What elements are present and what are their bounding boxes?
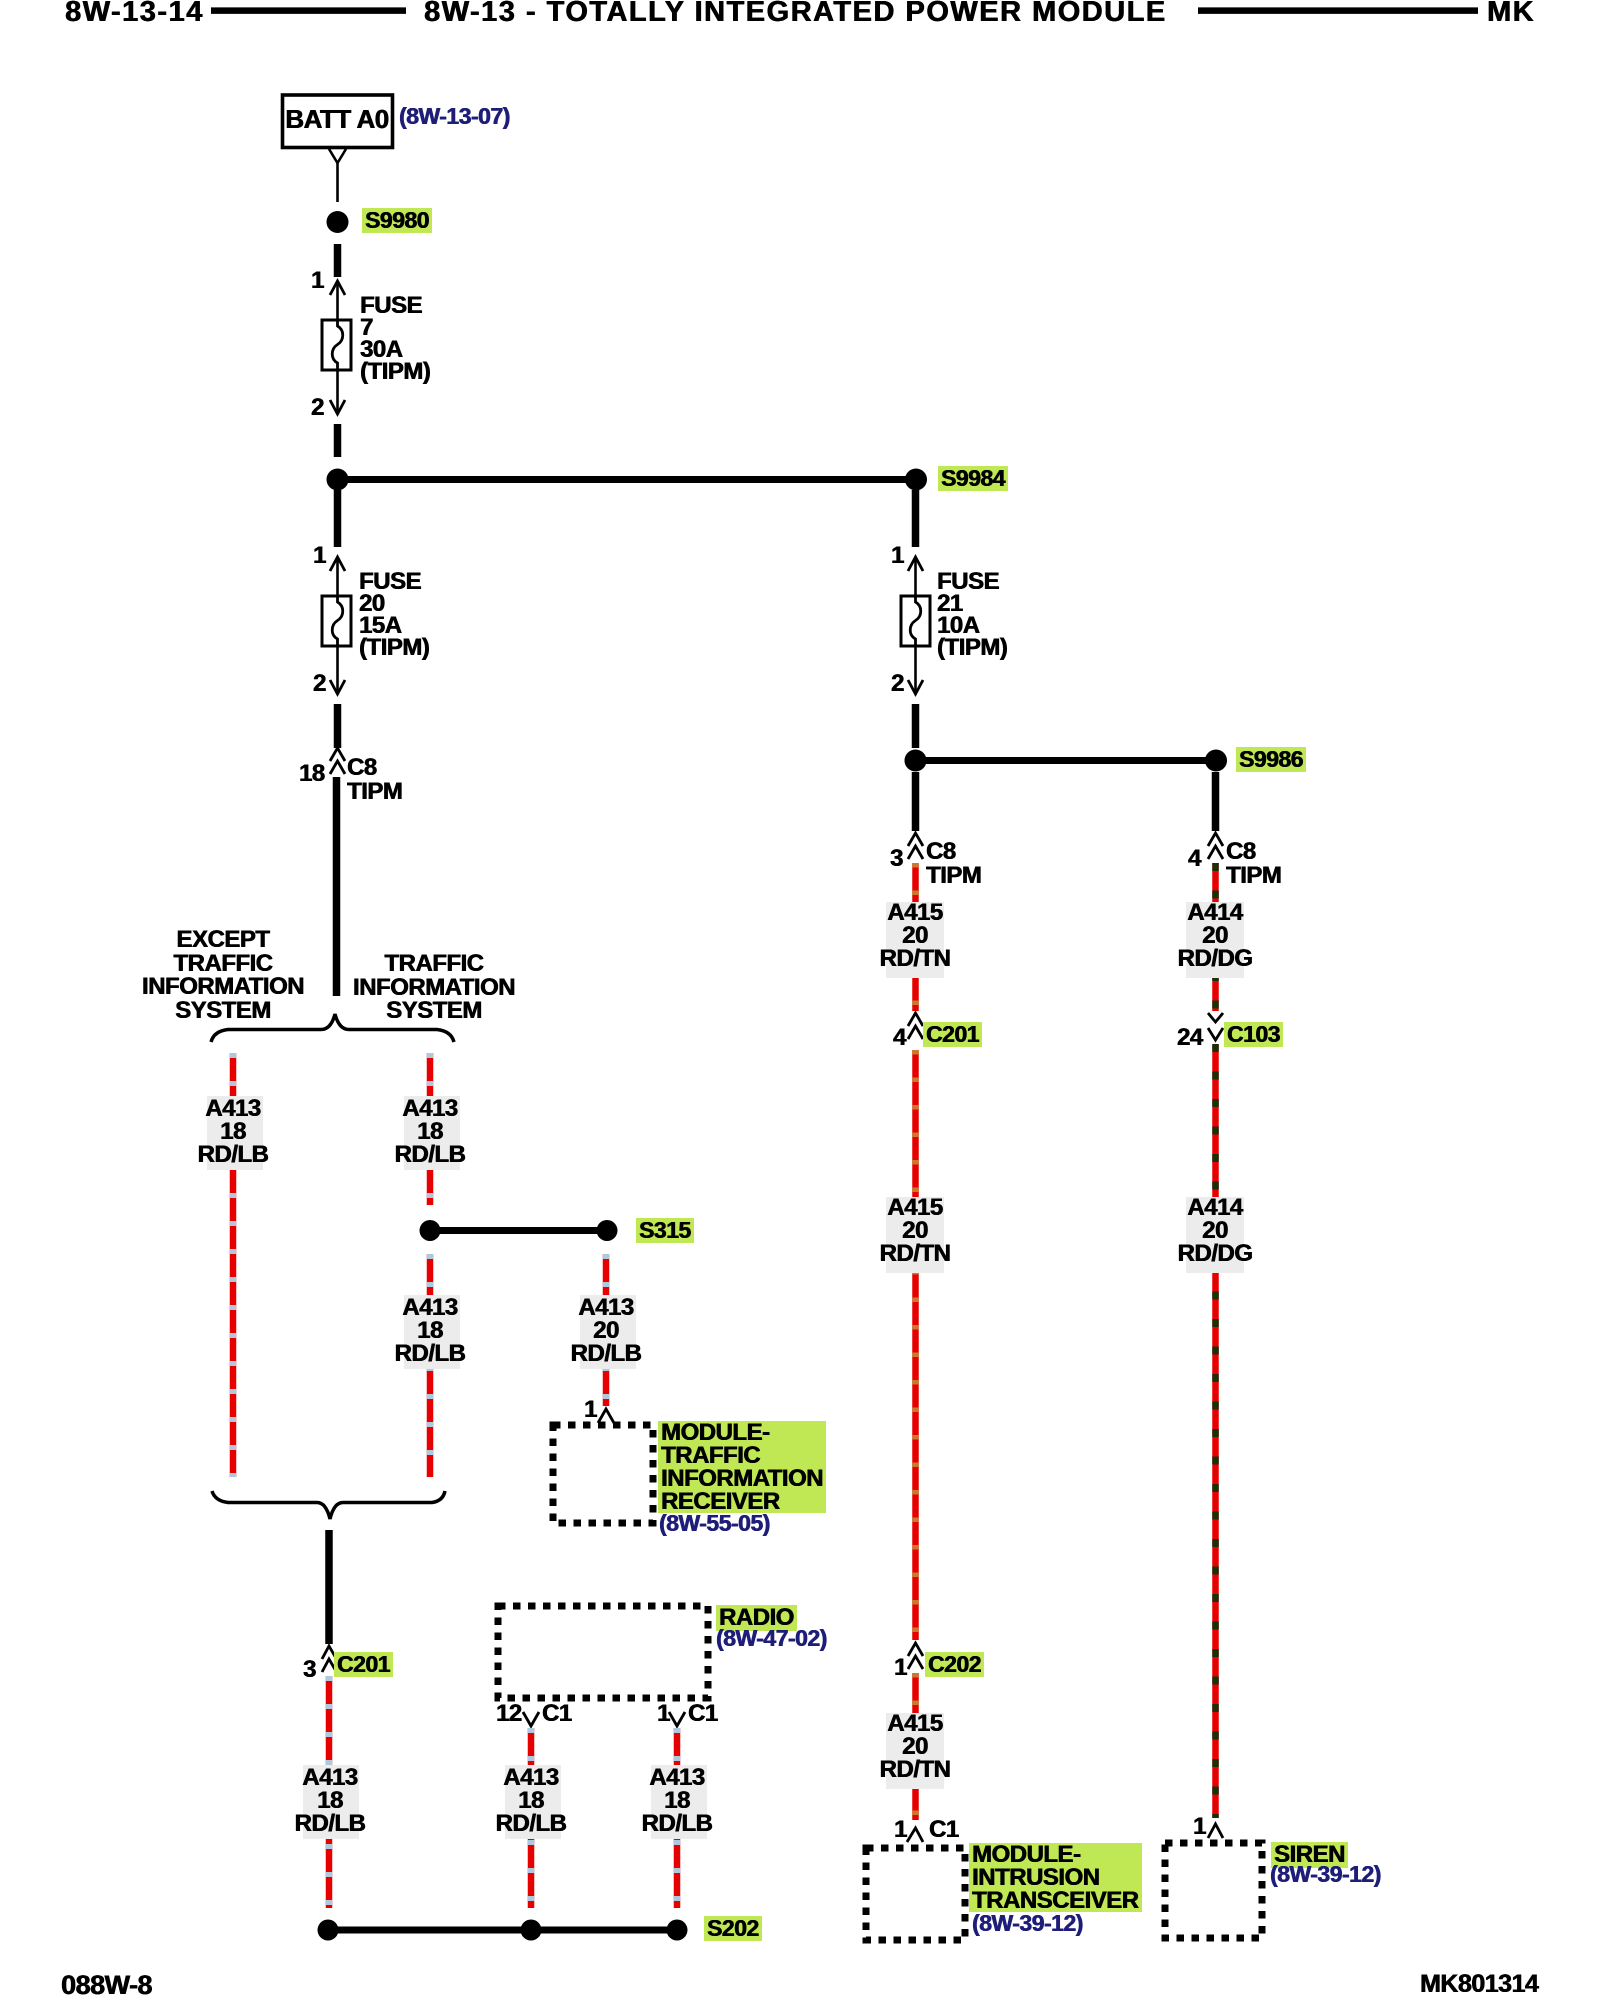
pin number 24 connector C103 [1177,1026,1203,1049]
pin number 1 fuse 7 [311,269,324,292]
label BATT A0 [285,104,388,135]
splice dot S9984 left [327,469,349,491]
reference 8W-13-07 [399,104,510,128]
pin 1 arrow fuse 7 [330,281,345,295]
label TIPM right [926,864,981,887]
model code MK [1487,0,1535,27]
wire A414 20 RD/DG lower [1212,1044,1219,1818]
wire label A415 20 RD/TN upper [880,901,951,970]
battery feed box BATT A0 [283,95,393,148]
pin number 1 radio C1 [657,1702,670,1725]
wire A413 20 RD/LB to receiver [603,1254,610,1406]
connector C8 pin 3 arrows [908,833,923,846]
pin number 3 connector C8 [890,847,903,870]
wire C8 pin 18 down to branch [333,777,341,996]
label FUSE 7 30A TIPM [360,295,430,383]
module traffic information receiver box [553,1425,653,1523]
bus wire S315 [430,1227,607,1234]
fuse F20 body [322,596,351,646]
wire label A413 18 RD/LB below S315 [395,1296,466,1365]
wire label A413 18 RD/LB TIS [395,1097,466,1166]
wire fuse 7 to pin 2 arrow [336,370,339,411]
label MODULE-INTRUSION TRANSCEIVER [969,1843,1142,1912]
wire arrow to fuse 20 [336,559,339,596]
pin number 4 connector C8 right [1188,847,1201,870]
label RADIO [716,1605,797,1631]
fuse F21 element [910,596,921,646]
splice dot S202 mid [521,1920,542,1941]
fuse F20 element [332,596,343,646]
connector C8 pin 4 arrows [1208,833,1223,846]
wire fuse 7 to splice S9984 [334,424,342,457]
label S315 [636,1218,694,1243]
label C103 [1224,1022,1283,1047]
module intrusion transceiver box [866,1848,965,1940]
wire A413 18 RD/LB C201 to S202 [326,1676,333,1908]
label S9984 [938,466,1008,491]
wire A413 18 RD/LB radio 12 to S202 [528,1728,535,1908]
wire label A414 20 RD/DG lower [1178,1196,1253,1265]
reference 8W-39-12 intrusion [972,1911,1083,1935]
pin 2 arrow fuse 20 [330,680,345,694]
sheet title [424,0,1167,27]
connector C103 pin 24 arrows [1208,1013,1223,1022]
pin number 1 intrusion C1 [894,1818,907,1841]
label S9980 [362,208,432,233]
splice dot S202 left [318,1920,339,1941]
label bg A414 lower [1186,1197,1244,1273]
label bg A414 upper [1186,902,1244,978]
connector V under BATT box [329,149,346,163]
pin number 4 connector C201 [893,1026,906,1049]
pin number 1 fuse 21 [891,544,904,567]
splice dot S9984 right [905,469,927,491]
connector C201 pin 3 arrows [322,1646,337,1659]
wire arrow to fuse 7 [336,283,339,320]
wire S9986 to C8 pin 4 [1212,772,1220,831]
wire A414 20 RD/DG upper [1212,863,1219,1011]
splice S9980 [327,211,349,233]
pin number 1 siren [1193,1815,1206,1838]
wire label A414 20 RD/DG upper [1178,901,1253,970]
wire label A413 20 RD/LB receiver [571,1296,642,1365]
bus wire S9984 [338,476,917,483]
reference 8W-39-12 siren [1270,1862,1381,1886]
wire A413 18 RD/LB TIS upper [427,1053,434,1205]
connector C202 pin 1 arrows [908,1643,923,1656]
pin 1 arrow fuse 20 [330,557,345,571]
wire A415 20 RD/TN upper [912,863,919,1011]
pin number 1 fuse 20 [313,544,326,567]
label C8 far right [1226,840,1256,863]
wire arrow to fuse 21 [914,559,917,596]
wire label A413 18 RD/LB radio 1 [642,1766,713,1835]
pin 2 arrow fuse 21 [908,680,923,694]
pin number 12 radio C1 [496,1702,522,1725]
pin number 1 traffic receiver [584,1398,597,1421]
pin 1 arrow intrusion transceiver C1 [907,1828,923,1842]
label bg A413 radio 1 [651,1765,707,1839]
radio pin 1 arrow [669,1712,685,1726]
wire S9984 to fuse 20 pin 1 [334,490,342,547]
pin 1 arrow traffic receiver [598,1409,614,1423]
wire A413 18 RD/LB except-TIS [230,1053,237,1477]
header rule right [1198,7,1478,14]
header rule left [211,7,406,14]
splice dot S202 right [667,1920,688,1941]
siren box [1165,1843,1262,1938]
fuse F7 body [322,320,351,370]
bus wire S9986 [916,757,1217,764]
pin number 18 connector C8 [299,762,325,785]
bus wire S202 [328,1927,677,1934]
pin 1 arrow siren [1208,1824,1223,1838]
connector C201 pin 4 arrows [908,1013,923,1026]
wire A413 18 RD/LB radio 1 to S202 [674,1728,681,1908]
fuse F21 body [901,596,930,646]
label C201 left [334,1652,393,1677]
label C1 intrusion [929,1818,959,1841]
reference 8W-47-02 [716,1626,827,1650]
label S202 [704,1916,762,1941]
label C201 right [923,1022,982,1047]
label TRAFFIC INFORMATION SYSTEM [353,952,515,1023]
pin number 3 connector C201 [303,1658,316,1681]
label bg A415 mid [886,1197,944,1273]
label bg A413 20 [580,1295,636,1369]
wire A415 20 RD/TN lower [912,1673,919,1820]
wire A413 18 RD/LB below S315 [427,1254,434,1477]
wire S9986 to C8 pin 3 [912,772,920,831]
wire label A413 18 RD/LB except-TIS [198,1097,269,1166]
radio pin 12 arrow [523,1712,539,1726]
wire A415 20 RD/TN mid [912,1050,919,1640]
label MODULE-TRAFFIC INFORMATION RECEIVER [658,1421,826,1513]
label TIPM [347,780,402,803]
wire label A413 18 RD/LB radio 12 [496,1766,567,1835]
pin number 2 fuse 20 [313,672,326,695]
label bg A415 lower [886,1713,944,1789]
fuse F7 element [332,320,343,370]
reference 8W-55-05 [659,1511,770,1535]
splice dot S9986 left [905,750,927,772]
wire label A415 20 RD/TN lower [880,1712,951,1781]
label C1 radio right [688,1702,718,1725]
pin number 2 fuse 21 [891,672,904,695]
label bg A413 radio 12 [505,1765,561,1839]
pin 2 arrow fuse 7 [330,400,345,414]
wire brace to C201 [325,1530,333,1644]
splice dot S315 right [597,1220,618,1241]
wire fuse 20 to connector C8 [334,704,342,748]
label bg A413 bottom-left [303,1765,359,1839]
wire BATT to S9980 [336,163,339,202]
label SIREN [1271,1842,1348,1868]
wire S9984 to fuse 21 pin 1 [912,490,920,547]
label FUSE 21 10A TIPM [937,571,1007,659]
label EXCEPT TRAFFIC INFORMATION SYSTEM [142,928,304,1022]
wire fuse 20 to pin 2 arrow [336,646,339,691]
brace branch top [211,1014,454,1042]
pin 1 arrow fuse 21 [908,557,923,571]
radio box [498,1606,708,1698]
label C8 right [926,840,956,863]
wire label A415 20 RD/TN mid [880,1196,951,1265]
wire fuse 21 to pin 2 arrow [914,646,917,691]
pin number 2 fuse 7 [311,396,324,419]
wire S9980 to fuse 7 pin 1 [334,244,342,277]
footer sheet code 088W-8 [61,1970,152,2000]
connector C8 pin 18 arrows [330,748,345,761]
splice dot S315 left [420,1220,441,1241]
label bg A413 left [207,1096,263,1170]
wire fuse 21 to splice S9986 [912,704,920,748]
page number 8W-13-14 [65,0,204,27]
label bg A415 upper [886,902,944,978]
wire label A413 18 RD/LB bottom-left [295,1766,366,1835]
label C8 [347,756,377,779]
label C202 [925,1652,984,1677]
label S9986 [1236,747,1306,772]
label bg A413 mid-left [404,1295,460,1369]
label FUSE 20 15A TIPM [359,571,429,659]
footer code MK801314 [1420,1970,1538,1999]
label bg A413 TIS [404,1096,460,1170]
brace branch bottom [212,1491,445,1519]
splice dot S9986 right [1205,750,1227,772]
label TIPM far right [1226,864,1281,887]
label C1 radio left [542,1702,572,1725]
pin number 1 connector C202 [894,1656,907,1679]
